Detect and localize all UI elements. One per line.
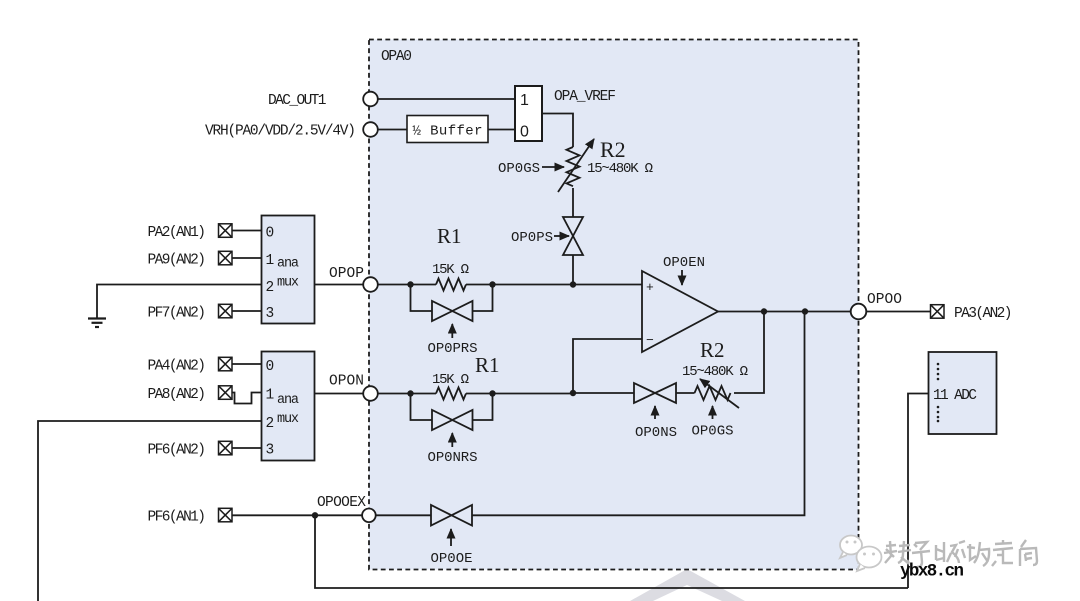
junction dot OP0PS line [570,281,576,287]
char xiang [1020,540,1037,566]
wire buffer to switch box [488,129,515,131]
wire bottom rail [315,515,908,588]
char ding [992,540,1013,566]
svg-text:1: 1 [266,387,275,403]
wire mux to OPON circle [315,393,365,395]
switch OP0NS [573,392,634,394]
mux U5 ana mux lower [262,352,315,461]
pad PA3 [931,305,945,319]
char ci [936,541,965,563]
junction dot feedback left [570,390,576,396]
wire mux input 2 to left rail [38,421,262,601]
terminal circle OPON [363,386,378,401]
dots below [937,406,940,423]
wire VRH to buffer [378,129,407,131]
op-amp U4 [642,271,718,352]
wire mux to OPOP circle [315,284,365,286]
wire OP0PS down to OPOP line [572,255,574,285]
char zhuan [884,541,911,564]
svg-text:PA4(AN2): PA4(AN2) [148,358,207,374]
switch OP0OE [431,505,472,526]
svg-text:mux: mux [277,412,299,427]
wire PA9 to mux [232,257,262,259]
wire PF7 to mux [232,310,262,312]
terminal circle VRH [363,122,378,137]
terminal circle OPOP [363,277,378,292]
pad PF7 [219,304,233,318]
svg-text:OPOOEX: OPOOEX [317,495,366,511]
watermark chevron [630,569,745,601]
resistor R2 feedback variable [695,386,731,400]
wire PA4 to mux [232,363,262,365]
pad PA9 [219,251,233,264]
svg-text:mux: mux [277,276,299,291]
terminal circle OPOOEX [362,509,376,523]
svg-text:OP0EN: OP0EN [663,255,705,271]
ground wire from mux input 2 [97,285,262,319]
buffer U1 half buffer box [407,116,488,143]
svg-text:3: 3 [266,306,275,322]
wire PA8 jog to mux input 1 [232,393,262,404]
svg-text:0: 0 [520,124,529,141]
wire OPOO to PA3 [867,311,931,313]
svg-text:0: 0 [266,225,275,241]
svg-text:15~480K Ω: 15~480K Ω [587,161,653,177]
svg-text:R1: R1 [475,353,500,377]
wire DAC_OUT1 to switch box [378,98,515,100]
svg-text:1: 1 [266,253,275,269]
pad PA8 [219,386,233,400]
OPA0 block background [369,40,859,570]
junction dot PF6 line [312,512,318,518]
junction dot output feedback [761,308,767,314]
dots above [937,363,940,381]
svg-text:PF6(AN2): PF6(AN2) [148,442,207,458]
svg-text:R2: R2 [600,137,626,162]
svg-text:ana: ana [277,257,299,272]
resistor R1 upper 15K [436,279,466,291]
mux U2 vref select box [515,86,542,141]
pad PF6 AN1 [219,508,233,522]
pad PF6 AN2 [219,441,233,455]
svg-text:PF6(AN1): PF6(AN1) [148,509,207,525]
svg-text:ana: ana [277,393,299,408]
svg-text:OP0GS: OP0GS [498,161,540,177]
ground [88,317,106,319]
svg-text:1: 1 [520,92,529,109]
wire op-amp output to OPOO [718,311,852,313]
svg-text:PA3(AN2): PA3(AN2) [954,306,1013,322]
svg-text:VRH(PA0/VDD/2.5V/4V): VRH(PA0/VDD/2.5V/4V) [205,124,356,140]
svg-text:OPA_VREF: OPA_VREF [554,89,616,105]
svg-text:OP0OE: OP0OE [431,551,473,567]
wire OPOOEX to OP0OE [376,514,431,516]
watermark wechat icon [840,536,882,572]
svg-text:OP0PS: OP0PS [511,230,553,246]
svg-text:OPOO: OPOO [867,292,902,308]
pad PA2 [219,224,233,238]
junction dot output to OP0OE [802,308,808,314]
wire OPON to R1 lower [378,393,436,395]
svg-text:PA9(AN2): PA9(AN2) [148,252,207,268]
wire ADC to bottom rail [908,394,929,589]
svg-text:OP0PRS: OP0PRS [428,341,478,357]
wire minus input feedback [573,339,642,393]
watermark chinese text [884,540,1037,567]
wire OP0NS to R2 [676,392,695,394]
switch OP0PS [563,217,583,255]
svg-text:15~480K Ω: 15~480K Ω [682,364,748,380]
wire OP0OE to output rail [472,312,805,516]
svg-text:PA2(AN1): PA2(AN1) [148,225,207,241]
svg-text:OPOP: OPOP [329,266,364,282]
terminal circle DAC_OUT1 [363,92,378,107]
svg-text:+: + [646,280,654,295]
svg-text:15K Ω: 15K Ω [432,372,469,388]
svg-text:DAC_OUT1: DAC_OUT1 [268,93,327,109]
svg-text:OP0GS: OP0GS [692,424,734,440]
svg-text:OP0NRS: OP0NRS [428,450,478,466]
ADC box [929,352,997,434]
svg-text:R2: R2 [700,338,725,362]
svg-text:−: − [646,333,654,348]
svg-text:R1: R1 [437,224,462,248]
svg-text:2: 2 [266,416,275,432]
wire R2 to OP0PS [572,188,574,217]
char zi [912,542,930,567]
svg-text:15K Ω: 15K Ω [432,262,469,278]
wire R2 up to output [734,312,764,394]
svg-text:OPON: OPON [329,374,364,390]
svg-text:OPA0: OPA0 [381,49,412,65]
svg-text:11 ADC: 11 ADC [933,388,977,404]
switch OP0PRS parallel path [411,285,493,312]
svg-text:0: 0 [266,359,275,375]
wire switch box to R2 [542,114,573,148]
wire PF6 to OPOOEX [232,514,362,516]
wire R1 lower to feedback junction [493,393,574,395]
junction dot [407,390,413,396]
wire PA2 to mux [232,230,262,232]
svg-text:½ Buffer: ½ Buffer [413,124,483,140]
svg-text:3: 3 [266,442,275,458]
char chang [967,542,989,566]
resistor R1 lower 15K [436,388,466,400]
junction dot [489,390,495,396]
wire R1 to op-amp plus input [493,284,643,286]
OPA0 dashed border [369,40,859,570]
wire OPOP to R1 [378,284,436,286]
switch OP0NRS parallel path [411,394,493,421]
svg-text:ybx8.cn: ybx8.cn [900,562,964,582]
terminal circle OPOO [851,304,867,320]
junction dot [489,281,495,287]
resistor R2 top variable [567,147,580,186]
svg-text:PA8(AN2): PA8(AN2) [148,387,207,403]
svg-text:OP0NS: OP0NS [635,425,677,441]
svg-text:2: 2 [266,280,275,296]
pad PA4 [219,357,233,371]
junction dot [407,281,413,287]
svg-text:PF7(AN2): PF7(AN2) [148,305,207,321]
wire PF6 to mux [232,447,262,449]
mux U3 ana mux upper [262,216,315,324]
